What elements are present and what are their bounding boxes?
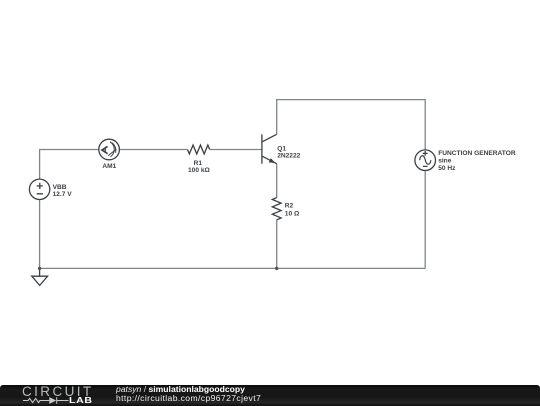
svg-text:10 Ω: 10 Ω	[285, 211, 300, 218]
svg-text:AM1: AM1	[102, 163, 116, 170]
svg-text:12.7 V: 12.7 V	[53, 191, 73, 198]
svg-text:sine: sine	[438, 157, 452, 164]
svg-text:100 kΩ: 100 kΩ	[188, 167, 211, 174]
svg-text:50 Hz: 50 Hz	[438, 165, 456, 172]
svg-text:R1: R1	[194, 160, 203, 167]
svg-text:R2: R2	[285, 202, 294, 209]
svg-text:2N2222: 2N2222	[277, 153, 300, 160]
svg-text:Q1: Q1	[277, 145, 286, 152]
svg-text:VBB: VBB	[53, 184, 67, 191]
svg-text:FUNCTION GENERATOR: FUNCTION GENERATOR	[438, 150, 516, 157]
